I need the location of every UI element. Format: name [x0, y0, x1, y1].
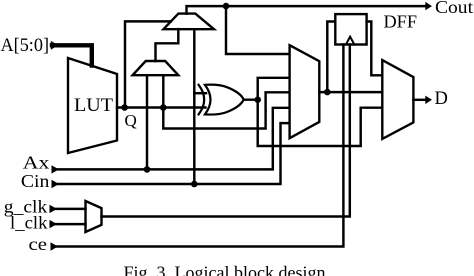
svg-text:Cin: Cin [21, 171, 50, 191]
node junction dot XOR out [254, 96, 261, 103]
svg-text:LUT: LUT [74, 96, 113, 116]
node junction dot carry [223, 3, 230, 10]
svg-text:l_clk: l_clk [10, 213, 48, 233]
svg-text:DFF: DFF [384, 12, 418, 32]
LUT U1 [68, 58, 117, 153]
mux M4 (generate mux) [133, 61, 179, 75]
svg-text:Cout: Cout [435, 0, 473, 17]
node junction dot Cin [191, 181, 198, 188]
wire M1 output to mux M2 input 2 [319, 91, 381, 93]
wire A bus into LUT [52, 45, 92, 65]
svg-text:D: D [435, 89, 448, 109]
carry mux M3 [164, 14, 215, 30]
wire Q to carry-mux select [125, 21, 171, 107]
wire M2 output to D [413, 99, 426, 101]
node junction dot Ax [144, 166, 151, 173]
clock mux M5 [86, 201, 102, 232]
node Cout arrowhead and label [425, 0, 473, 17]
node junction dot Q1 [121, 104, 128, 111]
svg-text:Ax: Ax [23, 153, 50, 173]
node ce label [29, 234, 58, 254]
mux M1 [290, 45, 320, 138]
node Ax label [23, 153, 59, 174]
node junction dot Q2 [160, 104, 167, 111]
svg-text:Q: Q [125, 111, 137, 130]
wire Ax line, riser to mux M4, riser to mux M1 input 4 [57, 108, 289, 170]
wire Cin riser to XOR and carry mux [193, 29, 195, 184]
svg-text:A[5:0]: A[5:0] [1, 35, 50, 56]
svg-text:ce: ce [29, 234, 48, 254]
node g_clk label [4, 196, 57, 216]
wire M4 output to carry mux input [156, 29, 179, 61]
node A[5:0] label [1, 35, 59, 56]
wire g_clk to clock mux [56, 208, 86, 210]
XOR gate G1 [199, 85, 244, 115]
node junction dot M1 out [324, 89, 331, 96]
DFF clock wedge [346, 37, 354, 45]
wire clock mux output to DFF clock [102, 45, 350, 217]
wire M1 out up to DFF D input [327, 22, 335, 93]
wire Cin stub to XOR input 1 [194, 92, 206, 94]
wire XOR out down around to mux M2 input 3 [258, 100, 382, 146]
wire Cin line and riser to mux M1 input 5 [57, 123, 289, 184]
wire Q dot2 up to mux M4 input [162, 75, 164, 107]
wire DFF Q output to mux M2 input 1 [367, 22, 382, 76]
wire XOR out up to mux M1 input 2 [258, 78, 289, 100]
DFF U2 [335, 14, 366, 44]
node D arrowhead and label [425, 89, 448, 109]
wire ce to DFF enable [57, 45, 344, 247]
wire Q dot2 down around to mux M1 input 3 [163, 92, 288, 128]
mux M2 [382, 60, 413, 139]
node Cin label [21, 171, 59, 191]
wire l_clk to clock mux [56, 223, 86, 225]
node l_clk label [10, 213, 57, 233]
wire carry mux output to Cout [187, 6, 427, 14]
wire carry branch down to mux M1 input 1 [226, 6, 289, 54]
wire Q: LUT output to XOR input [117, 106, 206, 108]
svg-text:Fig. 3. Logical block design: Fig. 3. Logical block design [124, 263, 326, 276]
wire XOR output to dot [244, 98, 258, 100]
